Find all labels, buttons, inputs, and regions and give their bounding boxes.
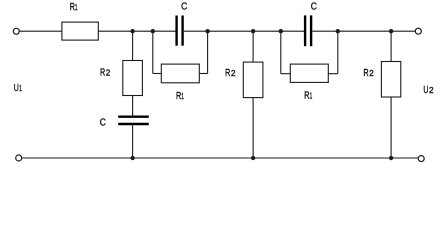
terminal U1 top-left	[13, 28, 19, 34]
label R2 (branch 3)	[363, 68, 374, 79]
svg-text:2: 2	[369, 69, 374, 78]
resistor R2 (branch 3)	[381, 62, 400, 98]
wire input to R1	[19, 30, 62, 32]
label R1 (bridge 1)	[176, 91, 184, 102]
wire R2 branch 3 to bottom rail	[390, 97, 392, 158]
resistor R2 (branch 2)	[243, 62, 263, 98]
svg-text:2: 2	[231, 69, 236, 78]
wire node D down to R2 branch 2	[252, 31, 254, 62]
svg-text:R: R	[100, 67, 105, 78]
label R2 (branch 1)	[100, 67, 111, 78]
svg-text:2: 2	[106, 68, 111, 77]
wire R2 branch 1 to capacitor C3	[132, 96, 134, 116]
node D (top of R2 branch 2)	[251, 29, 255, 33]
svg-text:U: U	[14, 83, 19, 94]
node E (bridge 2 left)	[279, 29, 283, 33]
svg-text:R: R	[225, 68, 230, 79]
node A (top of R2 branch 1)	[130, 29, 134, 33]
svg-text:1: 1	[19, 84, 22, 93]
label R1 (series)	[70, 2, 78, 13]
node J (bottom of branch 3)	[389, 156, 393, 160]
capacitor C (shunt, branch 1)	[118, 117, 149, 124]
label U1	[14, 83, 22, 94]
capacitor C (series, section 1)	[177, 16, 183, 46]
wire node G down to R2 branch 3	[390, 31, 392, 61]
node F (bridge 2 right)	[336, 29, 340, 33]
wire node A down to R2 branch 1	[132, 31, 134, 60]
resistor R1 (series)	[62, 22, 98, 40]
terminal U2 bottom-right	[418, 156, 424, 162]
resistor R1 (bridge 1)	[161, 64, 199, 83]
wire bridge 2 right stub	[328, 31, 338, 73]
node G (top of R2 branch 3)	[389, 29, 393, 33]
wire bridge 1 left stub	[153, 31, 162, 73]
wire C2 to output	[312, 30, 415, 32]
wire R1 to capacitor C1	[98, 30, 175, 32]
terminal U1 bottom-left	[16, 155, 22, 161]
label C (section 1)	[181, 1, 187, 12]
node B (bridge 1 left)	[151, 29, 155, 33]
svg-text:1: 1	[310, 91, 313, 100]
svg-text:C: C	[100, 117, 106, 128]
resistor R2 (branch 1)	[123, 61, 143, 96]
svg-text:C: C	[181, 1, 187, 12]
wire R2 branch 2 to bottom rail	[252, 98, 254, 158]
svg-text:R: R	[363, 68, 368, 79]
svg-text:1: 1	[181, 92, 184, 101]
label U2	[423, 85, 434, 96]
svg-text:2: 2	[429, 86, 434, 95]
capacitor C (series, section 2)	[305, 15, 311, 46]
terminal U2 top-right	[415, 28, 421, 34]
label C (section 2)	[311, 2, 317, 13]
label R2 (branch 2)	[225, 68, 236, 79]
wire C1 to capacitor C2	[184, 30, 304, 32]
svg-text:U: U	[423, 85, 428, 96]
wire bottom rail	[22, 157, 418, 159]
wire C3 to bottom rail	[132, 125, 134, 158]
svg-text:C: C	[311, 2, 317, 13]
svg-text:1: 1	[75, 3, 78, 12]
node I (bottom of branch 2)	[251, 156, 255, 160]
wire bridge 1 right stub	[199, 31, 207, 73]
wire bridge 2 left stub	[281, 31, 291, 73]
resistor R1 (bridge 2)	[290, 64, 328, 82]
label R1 (bridge 2)	[304, 90, 312, 101]
label C (shunt)	[100, 117, 106, 128]
node H (bottom of branch 1)	[130, 156, 134, 160]
node C (bridge 1 right)	[205, 29, 209, 33]
